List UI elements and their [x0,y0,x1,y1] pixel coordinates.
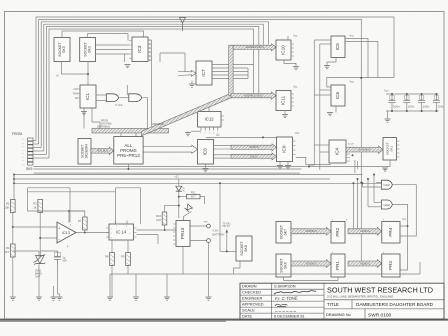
signature checked [274,291,316,295]
junction [12,226,14,228]
IC8 [198,140,214,165]
resistor R3 [4,244,15,257]
wire SK8 bottom stub [234,261,241,274]
ground bottom row x39 [36,297,42,300]
wire IC1 outputs to gate IC2a [96,94,106,96]
ground left of IC12 pins [185,133,191,136]
svg-text:—··: —·· [22,160,26,162]
svg-text:50V: 50V [63,260,68,263]
bus IC8 to IC9 lower (open pair) [214,155,232,158]
wire +12 drop [178,179,180,186]
IC14 [109,224,134,240]
socket SK3 [80,38,96,62]
junction [407,225,409,227]
wire long rail D [14,182,381,184]
PROM PR3 [382,254,400,277]
junction [178,196,180,198]
svg-text:100n: 100n [423,105,430,109]
svg-text:IC7: IC7 [201,69,206,77]
svg-text:—··: —·· [22,164,26,166]
socket SK2 and SK4 [78,139,91,165]
svg-text:SOUTH WEST RESEARCH LTD: SOUTH WEST RESEARCH LTD [327,285,433,294]
wire PROMs bottom stub [127,164,129,169]
resistor R11 [187,190,201,198]
IC5 [331,36,345,58]
ground below IC8 [203,169,209,172]
svg-text:6: 6 [150,61,151,63]
bus PR2 to PR4 [348,227,382,235]
wire loop below IC4 b [357,161,359,169]
bus ADDRESS BUS diagonal band [142,93,232,136]
wire op-amp output [76,232,109,234]
svg-text:SK3: SK3 [88,46,92,53]
svg-text:—··: —·· [22,140,26,142]
svg-text:SK9: SK9 [26,167,33,171]
svg-text:R/W: R/W [73,93,78,96]
diode D2 [185,204,193,212]
svg-text:ADD BUS: ADD BUS [152,122,164,126]
wire SK3 bottom to IC1 [87,62,89,86]
resistor R8 [105,253,114,266]
svg-text:3: 3 [111,233,112,235]
wire IC6 left feeds [320,89,331,91]
wire top routing bus line 6 [49,29,254,158]
svg-text:SCALE: SCALE [242,308,255,313]
connector SK9 (FROM header) [12,132,33,171]
wire gate c inputs [376,182,381,184]
junction [262,136,264,138]
battery terminal +ve [207,224,211,228]
svg-text:DATA BUS: DATA BUS [97,125,110,129]
wire top routing bus line 1 [36,17,394,141]
svg-text:DRAWING No: DRAWING No [326,312,351,317]
resistor R1 [4,200,15,213]
svg-text:ADDRESS BUS: ADDRESS BUS [244,94,263,98]
svg-text:R8: R8 [105,255,109,259]
junction [164,229,166,231]
junction [435,110,437,112]
capacitor C5 1u [54,251,67,265]
junction [421,93,423,95]
wire top routing bus line 2 [39,19,362,261]
svg-text:SK2&SK4: SK2&SK4 [85,144,89,159]
junction [435,93,437,95]
IC9 [277,137,293,162]
ground below IC7 [189,84,195,87]
socket SK5 [54,38,70,62]
svg-text:PIN 15: PIN 15 [223,226,231,228]
wire into SK8 [220,250,236,252]
wire loop to IC14 top [116,188,141,224]
signature approved [275,304,288,306]
wire IC1 bottom loops [83,108,85,129]
bus band into IC11 [231,92,276,99]
wire IC4 right pin stubs [346,154,350,161]
svg-text:IC4: IC4 [335,147,340,155]
svg-text:4K7: 4K7 [191,195,196,199]
title block grid lines [240,283,444,319]
socket SK6 [276,254,291,277]
bus SK6 to PR1 [291,260,331,268]
svg-text:ADD BUS: ADD BUS [97,149,109,153]
capacitor C4 100n [433,94,445,111]
svg-text:AD BUS: AD BUS [249,145,259,149]
bus into IC8 (two-line taper) [143,145,197,153]
ground below IC9 a [277,166,283,169]
junction [406,93,408,95]
junction [39,237,41,239]
svg-text:DATA BUS: DATA BUS [358,148,371,152]
wire cap bottom rail [386,110,439,112]
wire bottom long rail [110,273,420,275]
wire op-amp inv input [40,237,57,239]
svg-text:100n: 100n [408,105,415,109]
svg-text:¼IC2: ¼IC2 [383,203,390,207]
IC3 pin numbers [150,41,151,63]
title block outline [240,283,444,319]
svg-text:—··: —·· [22,147,26,149]
svg-text:PR1: PR1 [335,261,340,270]
IC6 [331,85,345,106]
capacitor C1 100n [389,94,401,111]
wire op-amp +12 feed [68,211,70,223]
wire IC7 feed drop [159,53,161,62]
wire rail stub right [419,262,421,274]
IC7 [196,61,212,85]
svg-text:Vcc: Vcc [350,80,355,84]
svg-text:4: 4 [111,238,112,240]
svg-text:6: 6 [130,233,131,235]
wire rail drop to SK8 [219,183,221,251]
wire battery -ve to gnd [208,242,210,296]
wire analog tie [28,191,116,193]
wire C5 leads [40,250,57,252]
wire D2 to PR13 top [184,212,192,221]
wire left riser join [13,175,15,184]
svg-text:2: 2 [111,229,112,231]
wire IC3 gnd lead [124,54,126,62]
svg-text:GAP: GAP [35,276,41,279]
svg-text:SK5: SK5 [62,46,66,53]
wire R8/R9 to ground rail [111,266,113,297]
LED D1 [176,186,185,191]
svg-text:4: 4 [150,53,151,55]
junction [357,178,359,180]
svg-text:IC3: IC3 [137,45,142,53]
wire R7 top [70,211,85,217]
svg-text:1: 1 [116,226,117,228]
wire PROMs top to data bus [120,133,122,137]
svg-text:—··: —·· [22,150,26,152]
svg-text:APPROVED: APPROVED [242,302,264,307]
svg-text:R7: R7 [78,219,82,223]
svg-text:IC5: IC5 [335,43,340,51]
band-gap reference D3 2V45 [34,255,46,279]
wire IC10 vcc [287,36,289,40]
PROM PR4 [382,222,400,244]
resistor R10 [156,212,167,225]
svg-text:7: 7 [130,229,131,231]
wire D1 to junctions [178,192,180,219]
svg-text:TO SK1: TO SK1 [223,223,232,225]
wire gate b inputs [126,85,128,95]
wire IC3 right pin bus [151,40,153,129]
wire top routing bus line 5 [46,27,258,155]
svg-text:Vcc: Vcc [295,131,300,135]
svg-text:8 DECEMBER 81: 8 DECEMBER 81 [274,314,305,319]
bus IC4 to SK1 [346,146,383,153]
IC10 [276,40,291,60]
wire Vcc rail of decoupling caps [386,93,439,95]
wire SK9 pin stub [34,150,44,152]
pin number marks above PROM row [332,220,385,255]
wire verticals above PR2/PR4 buses [352,183,354,229]
ground below IC1 [81,112,87,115]
svg-text:R9: R9 [121,255,125,259]
resistor R9 [121,253,130,266]
svg-text:PR3: PR3 [388,261,393,270]
wire long rail A2 [34,168,302,170]
wire IC5 gnd [327,58,336,66]
svg-text:10K: 10K [4,206,9,210]
svg-text:IC6: IC6 [335,91,340,99]
ground bottom row x136 [133,297,139,300]
svg-text:1K: 1K [33,206,37,210]
wire top routing bus line 3 [41,22,268,148]
ground bottom row x59 [57,297,63,300]
svg-text:DRAWN: DRAWN [242,284,257,289]
IC1 [80,85,96,108]
wire IC10 gnd [284,60,296,67]
IC11 [276,91,291,111]
wire drop gnd f [135,274,137,297]
wire SK9 pin stub [34,147,42,149]
wire IC14 right link to PR13 [137,229,164,231]
wire loop below IC4 c [354,160,356,173]
wire long rail C [14,178,330,180]
socket SK8 [236,236,252,261]
bus band into IC9 b [231,153,277,160]
wire IC4 left feeds [314,144,329,146]
bus band into IC10 [233,44,276,51]
wire +12 branch [28,199,85,211]
svg-text:5: 5 [150,57,151,59]
wire IC7 right pins [212,64,254,66]
wire long rail A [34,166,310,168]
junction [367,178,369,180]
svg-text:Vcc: Vcc [384,89,389,93]
socket SK7 [276,222,291,244]
junction [360,77,362,79]
ground bottom row x110 [107,297,113,300]
wire SK1 bottom loop [309,160,390,167]
junction [373,174,375,176]
wire PR13 bottom [182,247,184,275]
ground below IC10 [293,67,299,70]
wire IC12 pin1 to gnd [191,130,201,132]
wire IC12 top [208,104,210,112]
wire drop to R1 [13,175,15,200]
bottom scan edge line [0,319,448,321]
svg-text:1: 1 [150,41,151,43]
svg-text:IC9: IC9 [282,145,287,153]
title block row labels [242,284,264,319]
svg-text:—··: —·· [22,143,26,145]
wire SK8 riser with arrow [226,230,228,252]
wire cap gnd lead [387,111,389,119]
junction [13,174,15,176]
svg-text:AD BUS: AD BUS [360,261,370,265]
wire SK9 pin stub [34,154,47,156]
wire gate a out to gate b [120,97,129,99]
svg-text:2: 2 [150,45,151,47]
ground below IC5 [324,66,330,69]
svg-text:ADDRESS BUS: ADDRESS BUS [245,45,264,49]
svg-text:+5: +5 [56,74,60,78]
svg-text:9·6V: 9·6V [213,229,219,233]
junction [352,182,354,184]
IC4 [329,140,346,163]
svg-text:SK7: SK7 [284,229,288,236]
bus IC8 to IC9 upper (open pair) [214,146,232,149]
junction [308,166,310,168]
resistor R2 [33,200,42,213]
resistor R7 [78,217,87,230]
svg-text:PR2: PR2 [335,227,340,236]
svg-text:IC11: IC11 [281,95,286,105]
wire R10 bottom to PR13 [165,225,177,230]
svg-text:SK6: SK6 [284,262,288,269]
svg-text:S.SIMPSON: S.SIMPSON [274,284,296,289]
svg-text:100n: 100n [393,105,400,109]
wire R11 leads [179,196,187,198]
gate IC2b (1/2 IC2) [129,94,142,102]
wire IC12 bottom pins [200,127,202,131]
wire cap C5 drop [57,265,59,294]
wire long verticals feeding IC5/IC6/IC4 [313,40,315,165]
svg-text:—··: —·· [22,157,26,159]
bus SK7 to PR2 [291,227,331,235]
wire IC3 left pin wires [96,44,130,46]
gate IC2a (1/2 IC2) [106,94,119,102]
junction [362,182,364,184]
svg-text:A0-A7: A0-A7 [348,143,355,146]
svg-text:PR4: PR4 [388,227,393,236]
bus SK2/4 to PROMs [91,147,114,154]
ground bottom row x167 [164,297,170,300]
wire gate b output [143,98,148,129]
svg-text:4K7: 4K7 [4,250,9,254]
wire PR13 to battery [190,225,207,227]
wire SK3 top link [88,34,128,38]
bus band into IC9 a [231,144,277,151]
svg-text:+12: +12 [174,175,179,179]
wire loop drop IC14 [115,188,117,224]
svg-text:3: 3 [150,49,151,51]
svg-text:SK1: SK1 [390,146,394,152]
svg-text:ADD BUS: ADD BUS [305,261,317,265]
ground below IC6 [327,113,333,116]
svg-text:—··: —·· [22,153,26,155]
svg-text:IC1: IC1 [85,92,90,100]
svg-text:TITLE: TITLE [327,302,339,307]
ground below IC9 b [285,166,291,169]
wire R1/R2 column [12,213,14,245]
junction [226,250,228,252]
svg-text:IC12: IC12 [205,117,215,122]
wire IC10 right pins [291,44,294,56]
svg-text:½ IC2: ½ IC2 [115,103,123,107]
wire SK5 bottom +5 rail [62,62,89,75]
junction [13,182,15,184]
PROM PR13 [176,221,190,247]
wire long rail B [14,174,363,176]
junction [219,182,221,184]
svg-text:+: + [58,226,60,230]
PROM array PR5-PR13 [114,137,143,164]
svg-text:FROM: FROM [12,132,22,136]
bus arrow into IC7 [178,70,196,76]
svg-text:ADD BUS: ADD BUS [305,229,317,233]
capacitor C2 100n [403,94,415,111]
wire IC7 right join [247,68,249,79]
wire R10 top [164,206,166,213]
junction [68,210,70,212]
wire PR row bottom rail [284,280,339,282]
svg-text:+5V: +5V [73,88,78,91]
svg-text:SK8: SK8 [244,245,248,252]
wire drop to IC3 pin [127,34,129,41]
gate IC2d (1/4 IC2) [381,200,392,209]
wire IC7 feed [160,52,185,54]
svg-text:¼IC2: ¼IC2 [383,183,390,187]
junction [127,168,129,170]
junction [406,110,408,112]
op-amp IC13 [57,222,76,249]
wire loop below IC4 a [296,157,331,164]
wire IC14 top pins [115,221,117,225]
junction [87,73,89,75]
junction [178,205,180,207]
wire drop gnd g [166,274,168,297]
ground below IC11 [282,115,288,118]
gate IC2c (1/4 IC2) [381,180,392,189]
PROM PR1 [331,254,345,277]
ground bottom row x53 [51,297,57,300]
svg-text:DAMBUSTERS DAUGHTER BOARD: DAMBUSTERS DAUGHTER BOARD [356,302,434,307]
svg-text:DATE: DATE [242,314,252,319]
svg-text:BATTERY: BATTERY [213,232,225,236]
svg-text:−: − [58,238,60,242]
wire Vcc line to IC9 top [206,136,277,138]
svg-text:IC 14: IC 14 [116,230,127,235]
junction [391,93,393,95]
svg-text:10K: 10K [156,218,161,222]
wire PR4 right stub [400,225,408,227]
capacitor C3 100n [418,94,430,111]
svg-text:IC8: IC8 [203,148,208,156]
ground bottom row x208 [206,297,212,300]
junction [352,154,354,156]
wire top routing bus line 4 [44,24,263,151]
svg-text:F.I. C·TONE: F.I. C·TONE [275,296,298,302]
ground bottom row x12 [10,297,16,300]
PROM PR2 [331,222,345,244]
wire long rail A3 [34,172,300,174]
wire op-amp input feeds [13,226,57,228]
svg-text:+ve: +ve [204,221,209,224]
IC12 [198,112,222,128]
